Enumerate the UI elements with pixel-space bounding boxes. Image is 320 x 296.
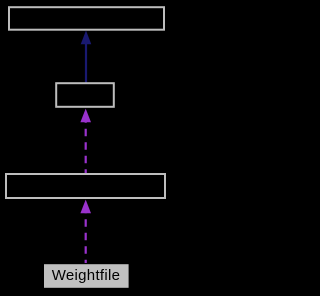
usage arrow (dashed darkorchid, from wide box up to small box) <box>80 109 91 174</box>
svg-text:Weightfile: Weightfile <box>52 267 121 284</box>
node box: intermediate class (small, empty label) <box>56 83 114 107</box>
node box: Weightfile (highlighted, grey fill) <box>43 264 129 289</box>
node box: base class (top, empty label) <box>9 7 164 30</box>
node box: wide class (empty label) <box>6 174 165 198</box>
usage arrow (dashed darkorchid, from Weightfile up to wide box) <box>80 200 91 264</box>
inheritance arrow (solid midnightblue, pointing up to base class) <box>81 31 92 83</box>
